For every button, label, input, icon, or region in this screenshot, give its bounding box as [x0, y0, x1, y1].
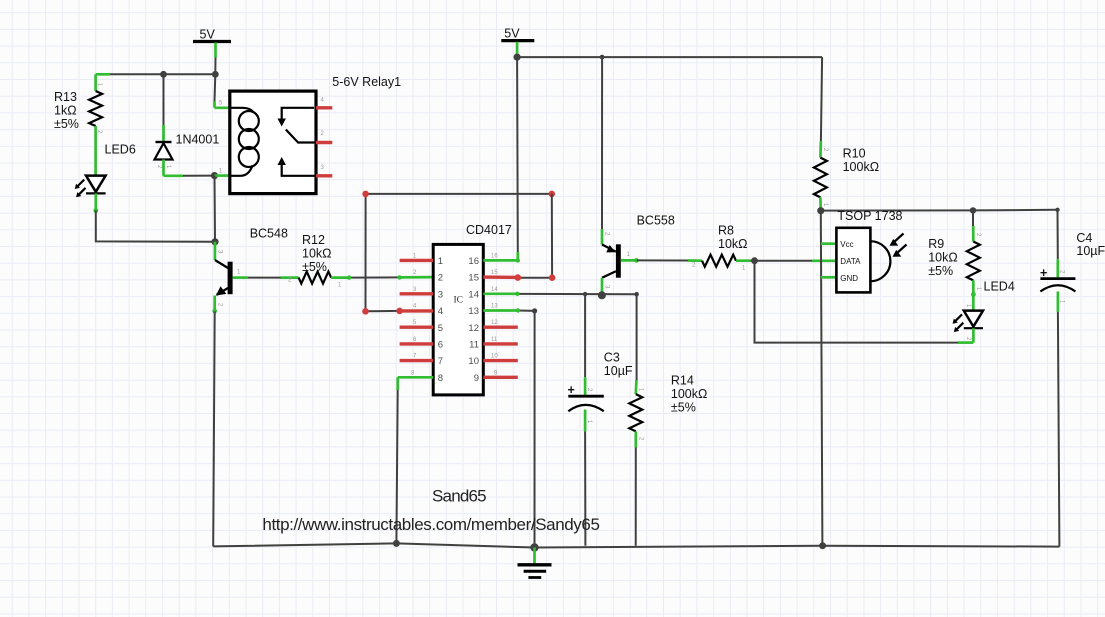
node red A	[362, 191, 369, 198]
wire red-net vertical left of IC	[365, 194, 367, 311]
node 5V right junction	[514, 54, 521, 61]
pin 14 stub + wire right	[483, 287, 636, 296]
svg-text:10µF: 10µF	[604, 364, 633, 378]
svg-text:http://www.instructables.com/m: http://www.instructables.com/member/Sand…	[262, 515, 599, 534]
svg-text:9: 9	[474, 373, 479, 384]
pin 15 stub + wire up	[483, 194, 555, 281]
wire C4 top drop	[1057, 210, 1059, 277]
LED LED6	[75, 143, 136, 198]
resistor R9	[928, 233, 981, 291]
wire 5V right stub	[516, 42, 519, 57]
wire R13 top lead	[94, 74, 97, 91]
pin 3 stub	[400, 292, 434, 295]
wire R12 to CD4017 pin2	[331, 275, 433, 280]
svg-text:5: 5	[438, 323, 443, 334]
svg-text:1kΩ: 1kΩ	[54, 103, 77, 117]
pin 10 stub	[483, 359, 518, 362]
svg-text:8: 8	[438, 373, 443, 384]
wire pin4 link	[366, 310, 400, 312]
node red D	[396, 308, 403, 315]
node rail ground junction	[530, 543, 538, 551]
svg-text:6: 6	[438, 340, 443, 351]
svg-text:IC: IC	[454, 296, 464, 306]
resistor R8	[692, 224, 748, 272]
svg-text:TSOP 1738: TSOP 1738	[837, 209, 902, 223]
svg-text:12: 12	[491, 320, 498, 326]
wire BC558 base to R8	[637, 259, 702, 261]
wire R9 to LED4	[972, 280, 975, 310]
svg-text:±5%: ±5%	[54, 117, 79, 131]
pin 12 stub	[483, 326, 518, 329]
power 5V left	[193, 28, 231, 42]
wire TSOP GND stub	[821, 276, 837, 279]
svg-text:R13: R13	[54, 90, 77, 104]
pin 6 stub	[400, 342, 434, 345]
pin 5 stub	[400, 326, 434, 329]
wire top-right rail to C4	[821, 209, 1058, 212]
wire 1N4001 bottom to relay pin1 node	[164, 160, 215, 176]
ground	[518, 548, 552, 578]
transistor Q1 BC548	[212, 227, 288, 314]
svg-text:Sand65: Sand65	[432, 487, 486, 506]
svg-text:14: 14	[491, 287, 498, 293]
svg-text:BC558: BC558	[637, 214, 675, 228]
resistor R13	[54, 83, 102, 134]
wire R10 bottom to node	[819, 197, 822, 210]
node at 5V left junction	[212, 71, 219, 78]
wire BC558 emitter drop	[601, 57, 603, 244]
svg-text:12: 12	[468, 323, 479, 334]
svg-text:16: 16	[468, 256, 479, 267]
wire R14 bottom to rail	[634, 431, 637, 545]
wire top-left horizontal rail	[96, 73, 216, 76]
pin 9 stub	[483, 376, 518, 379]
node BC548 collector junction	[211, 238, 218, 245]
diode 1N4001	[155, 133, 220, 170]
svg-text:BC548: BC548	[250, 227, 288, 241]
wire R9 top drop	[972, 210, 974, 241]
svg-text:±5%: ±5%	[302, 260, 327, 274]
wire junction down and across to LED4 bottom	[755, 261, 974, 343]
node C3 tap	[583, 292, 587, 296]
svg-text:13: 13	[468, 306, 479, 317]
svg-text:5-6V Relay1: 5-6V Relay1	[332, 75, 401, 89]
svg-text:CD4017: CD4017	[466, 223, 512, 237]
pin 7 stub	[400, 359, 434, 362]
wire bottom rail	[213, 543, 1059, 547]
wire 5V left drop to node	[214, 43, 217, 75]
wire LED4 bottom	[972, 328, 975, 342]
svg-text:R8: R8	[718, 224, 734, 238]
wire top rail to R10 column	[517, 56, 822, 58]
svg-text:13: 13	[491, 304, 498, 310]
svg-text:10µF: 10µF	[1076, 244, 1105, 258]
node red C	[362, 308, 369, 315]
wire junction to TSOP DATA	[755, 260, 837, 262]
svg-text:R14: R14	[671, 374, 694, 388]
svg-text:C4: C4	[1076, 231, 1092, 245]
wire LED6 bottom	[93, 193, 215, 241]
node rail pin8 junction	[393, 540, 400, 547]
svg-text:C3: C3	[604, 351, 620, 365]
IC U1 CD4017	[433, 223, 512, 395]
resistor R10	[814, 57, 879, 207]
svg-text:±5%: ±5%	[671, 400, 696, 414]
svg-text:4: 4	[438, 306, 443, 317]
node rail TSOP column junction	[819, 542, 826, 549]
pin 13 stub + wire to ground rail	[483, 304, 537, 548]
svg-text:15: 15	[491, 270, 498, 276]
svg-text:15: 15	[468, 273, 479, 284]
node R8/DATA junction	[751, 257, 758, 264]
wire relay pin5 link	[215, 74, 230, 108]
capacitor C4	[1040, 231, 1105, 304]
svg-text:LED6: LED6	[105, 143, 136, 157]
svg-text:GND: GND	[840, 274, 858, 283]
relay pin2 stub	[316, 141, 332, 144]
wire R8 to junction	[736, 259, 755, 262]
relay 5-6V Relay1	[219, 75, 401, 194]
wire R13 to LED6	[94, 126, 97, 176]
wire TSOP Vcc stub	[821, 242, 837, 245]
svg-text:LED4: LED4	[984, 279, 1015, 293]
svg-text:10kΩ: 10kΩ	[302, 246, 332, 260]
node BC558 collector junction	[598, 291, 606, 299]
wire C3 bottom to rail	[584, 410, 587, 546]
svg-text:1: 1	[438, 256, 443, 267]
svg-text:11: 11	[491, 337, 498, 343]
svg-text:14: 14	[468, 289, 479, 300]
svg-text:10: 10	[491, 354, 498, 360]
wire C4 bottom to rail	[1058, 292, 1060, 547]
pin 8 stub + wire to rail	[396, 370, 433, 543]
svg-text:2: 2	[438, 273, 443, 284]
power 5V right	[501, 27, 534, 41]
svg-text:R12: R12	[302, 233, 325, 247]
node diode top junction	[160, 71, 167, 78]
svg-text:100kΩ: 100kΩ	[843, 160, 879, 174]
svg-text:10: 10	[468, 356, 479, 367]
svg-text:10kΩ: 10kΩ	[718, 237, 748, 251]
svg-text:±5%: ±5%	[928, 264, 953, 278]
pin 4 stub	[400, 309, 434, 312]
relay pin3 stub	[316, 174, 332, 177]
svg-text:5V: 5V	[504, 27, 520, 41]
svg-text:7: 7	[438, 356, 443, 367]
LED LED4	[953, 279, 1015, 341]
wire node to BC548 collector node	[214, 176, 217, 242]
svg-text:Vcc: Vcc	[840, 240, 853, 249]
pin 1 stub	[400, 259, 434, 262]
wire BC548 base to R12	[233, 276, 299, 279]
wire 1N4001 top lead	[163, 74, 165, 142]
resistor R14	[629, 374, 707, 442]
svg-text:R9: R9	[928, 237, 944, 251]
node relay pin1 junction	[211, 172, 218, 179]
resistor R12	[288, 233, 342, 289]
node C4 corner	[1055, 208, 1059, 212]
svg-text:100kΩ: 100kΩ	[671, 387, 707, 401]
IC U2 TSOP 1738	[836, 209, 906, 293]
capacitor C3	[568, 351, 633, 424]
svg-text:11: 11	[469, 340, 479, 351]
wire TSOP column vertical	[821, 211, 823, 546]
relay pin4 stub	[316, 106, 332, 109]
svg-text:5V: 5V	[200, 28, 216, 42]
wire C3 top drop	[584, 294, 586, 395]
svg-text:16: 16	[491, 253, 498, 259]
transistor Q2 BC558	[602, 214, 675, 296]
node R10/Vcc junction	[817, 207, 824, 214]
pin 11 stub	[483, 342, 518, 345]
wire BC548 emitter to bottom rail	[213, 311, 215, 546]
svg-text:3: 3	[438, 289, 443, 300]
svg-text:1N4001: 1N4001	[176, 133, 220, 147]
svg-text:10kΩ: 10kΩ	[928, 250, 958, 264]
wire R14 top drop	[635, 294, 638, 394]
node BC558 emitter tap	[600, 55, 605, 60]
pin 16 stub + wire to 5V	[483, 57, 520, 262]
node red B	[549, 191, 556, 198]
wire red-net top horizontal	[366, 193, 552, 195]
wire relay pin1 stub	[215, 174, 230, 177]
svg-text:DATA: DATA	[840, 257, 861, 266]
svg-text:R10: R10	[843, 147, 866, 161]
node R9 tap	[970, 207, 976, 213]
